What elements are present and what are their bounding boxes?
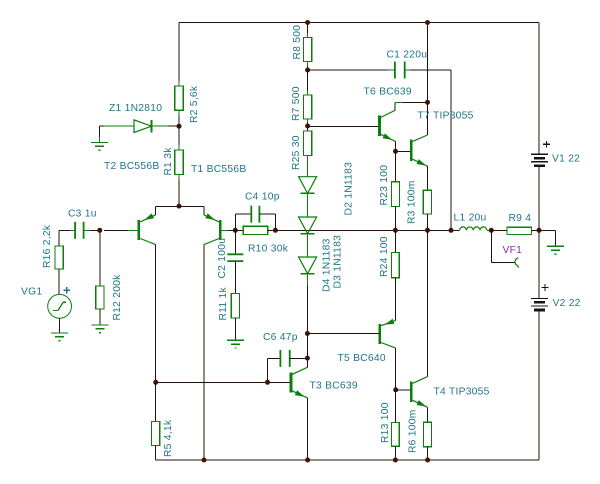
svg-text:R1 3k: R1 3k (163, 147, 174, 176)
svg-text:R3 100m: R3 100m (406, 180, 417, 224)
svg-text:R9 4: R9 4 (509, 213, 532, 224)
svg-text:R23 100: R23 100 (379, 165, 390, 206)
svg-text:R7 500: R7 500 (291, 86, 302, 121)
svg-text:C2 100u: C2 100u (217, 238, 228, 279)
svg-text:T4 TIP3055: T4 TIP3055 (434, 387, 490, 398)
svg-text:Z1 1N2810: Z1 1N2810 (109, 103, 162, 114)
svg-text:V2 22: V2 22 (553, 298, 581, 309)
svg-text:D3 1N1183: D3 1N1183 (333, 235, 344, 289)
svg-text:R24 100: R24 100 (379, 236, 390, 277)
svg-text:C1 220u: C1 220u (387, 50, 428, 61)
svg-text:C4 10p: C4 10p (245, 192, 280, 203)
svg-text:T2 BC556B: T2 BC556B (104, 161, 159, 172)
svg-text:R2 5,6k: R2 5,6k (189, 85, 200, 123)
svg-text:R10 30k: R10 30k (248, 244, 289, 255)
svg-text:V1 22: V1 22 (552, 154, 580, 165)
svg-text:C3 1u: C3 1u (68, 209, 97, 220)
svg-text:T3 BC639: T3 BC639 (310, 381, 358, 392)
svg-text:VF1: VF1 (503, 245, 523, 256)
svg-text:R11 1k: R11 1k (218, 287, 229, 321)
svg-text:R5 4,1k: R5 4,1k (163, 419, 174, 457)
svg-text:R13 100: R13 100 (380, 402, 391, 443)
svg-text:T5 BC640: T5 BC640 (338, 353, 386, 364)
svg-text:T1 BC556B: T1 BC556B (191, 164, 246, 175)
svg-text:R16 2,2k: R16 2,2k (42, 224, 53, 268)
svg-text:R12 200k: R12 200k (112, 274, 123, 321)
svg-text:C6 47p: C6 47p (263, 332, 298, 343)
svg-text:T6 BC639: T6 BC639 (364, 87, 412, 98)
svg-text:R8 500: R8 500 (292, 25, 303, 60)
svg-text:T7 TIP3055: T7 TIP3055 (418, 111, 474, 122)
svg-text:VG1: VG1 (21, 287, 42, 298)
svg-text:D4 1N1183: D4 1N1183 (321, 238, 332, 292)
svg-text:D2 1N1183: D2 1N1183 (344, 162, 355, 216)
svg-text:R6 100m: R6 100m (407, 409, 418, 453)
svg-text:R25 30: R25 30 (291, 135, 302, 170)
svg-text:L1 20u: L1 20u (454, 213, 487, 224)
